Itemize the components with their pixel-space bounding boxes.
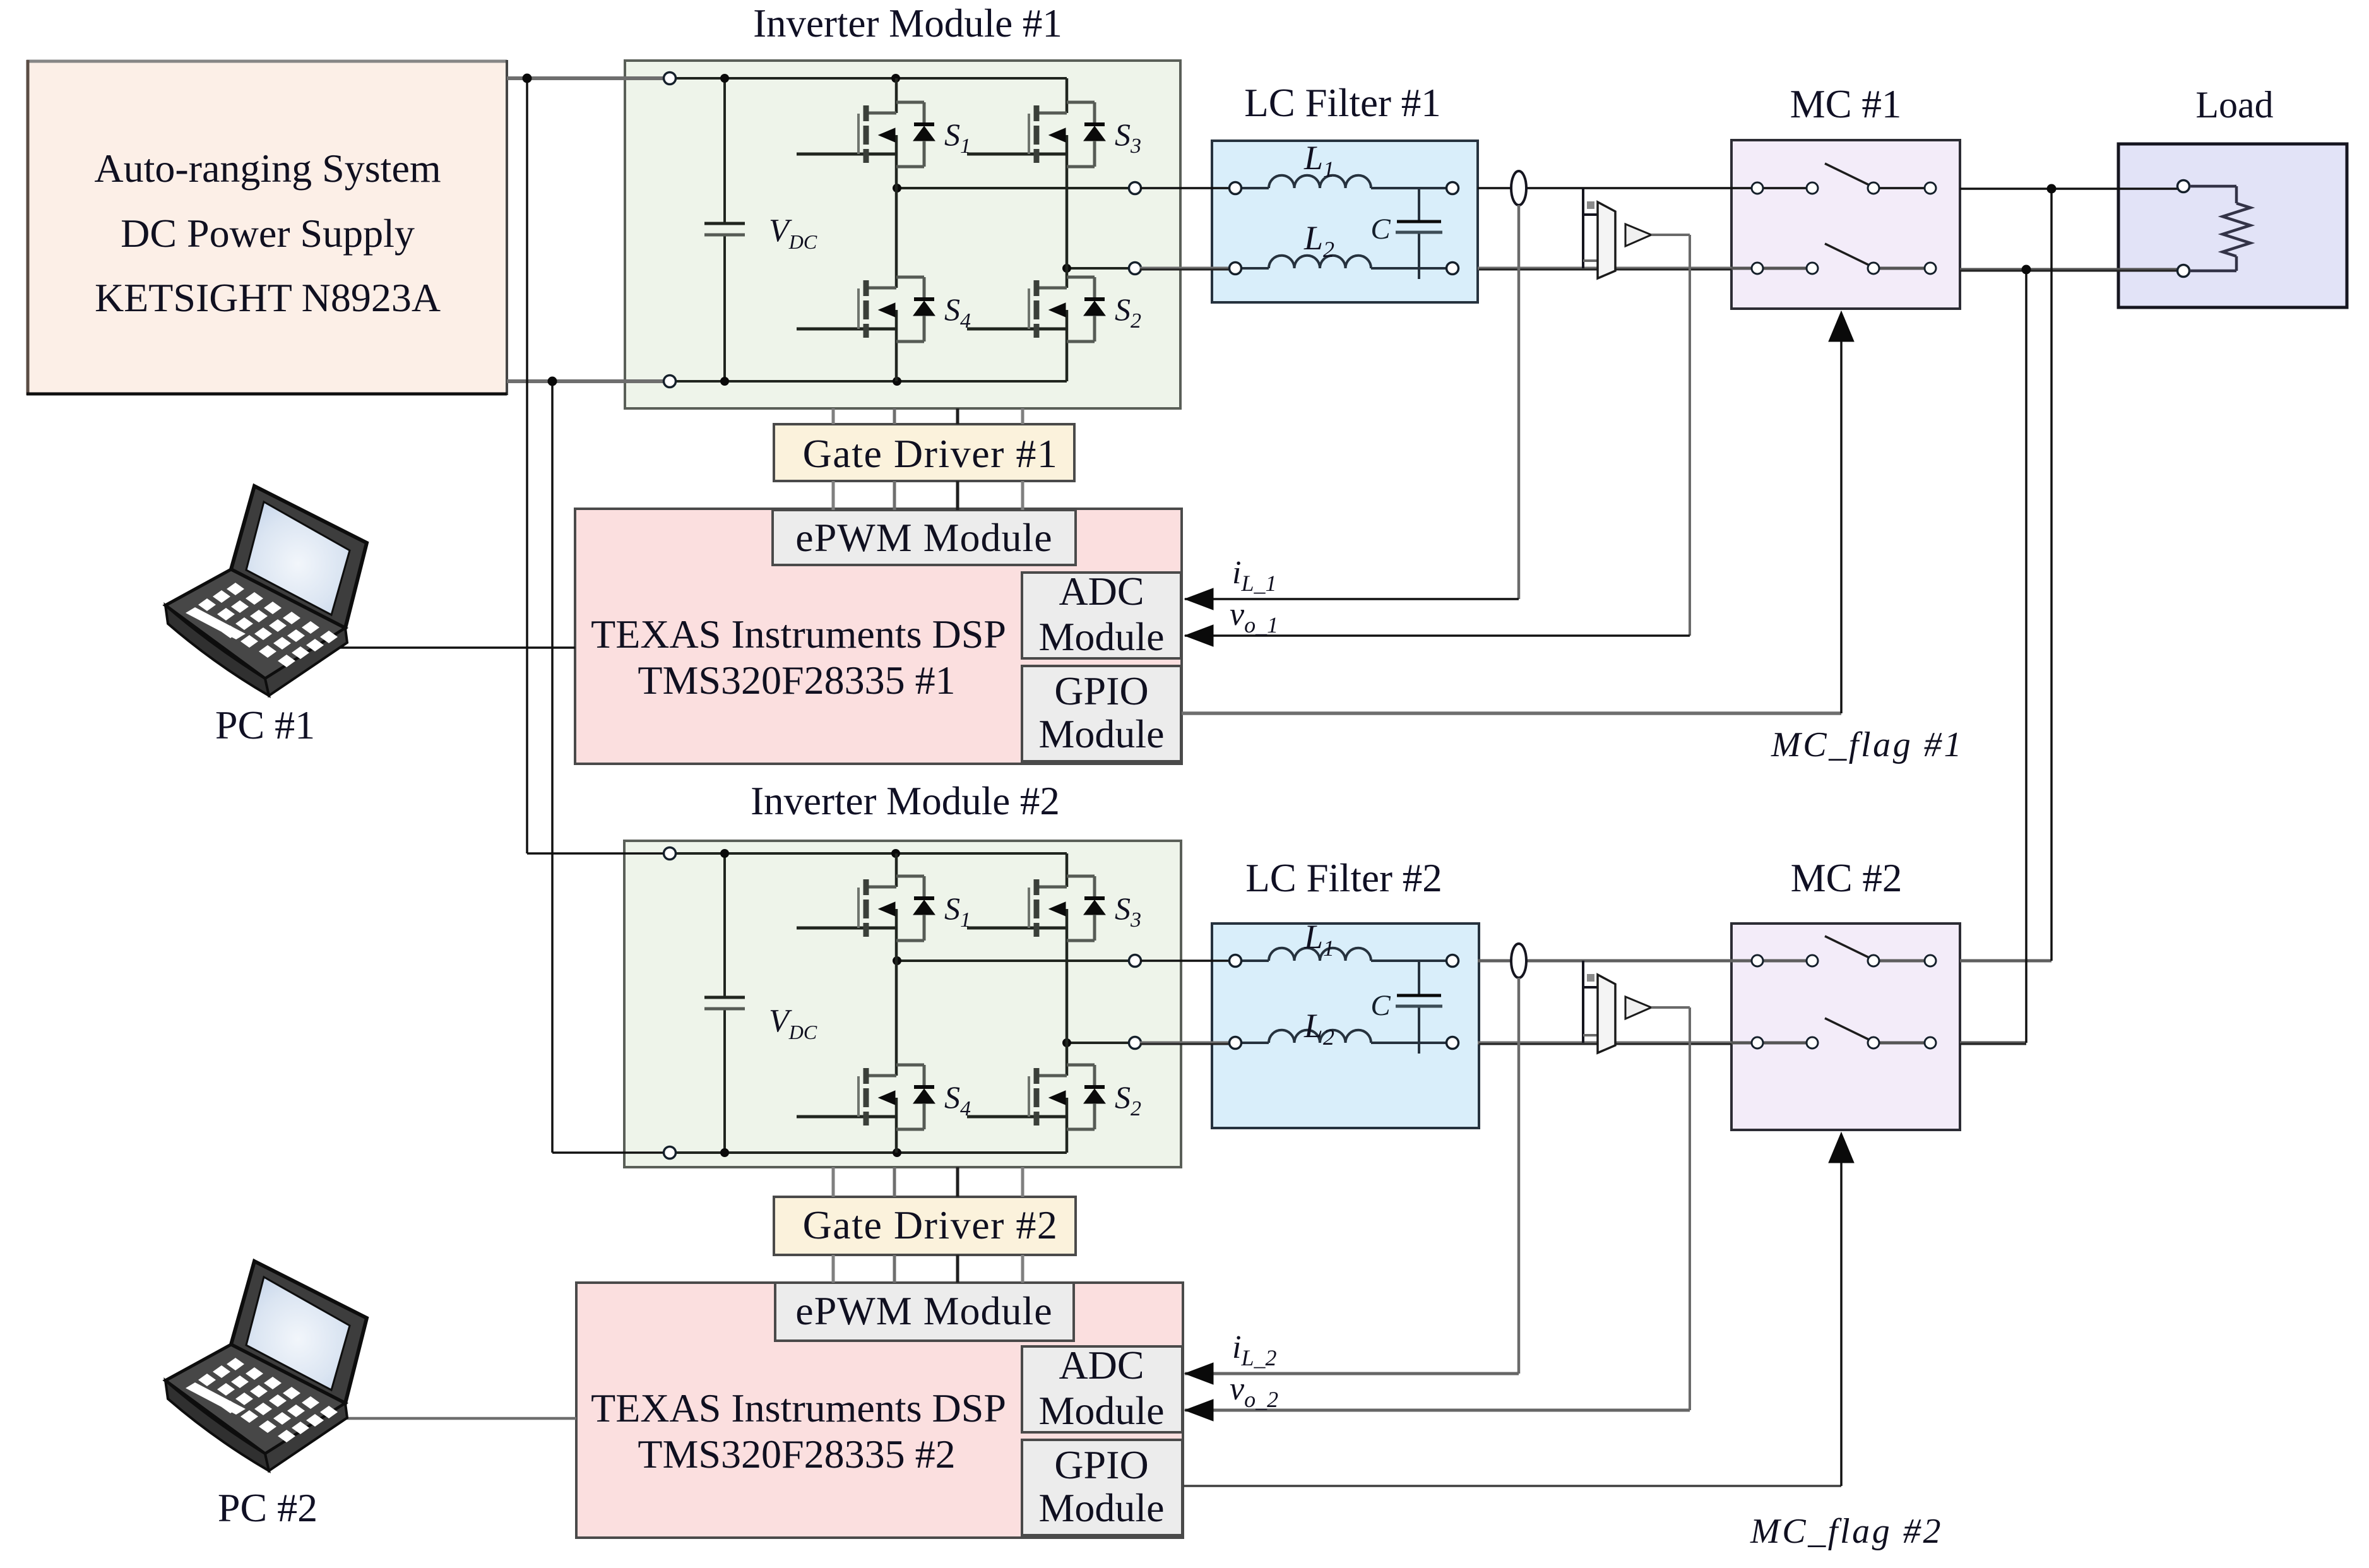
svg-text:MC_flag #2: MC_flag #2: [1750, 1512, 1943, 1551]
svg-text:TEXAS Instruments DSP: TEXAS Instruments DSP: [591, 612, 1006, 656]
svg-text:Load: Load: [2195, 84, 2273, 126]
svg-text:GPIO: GPIO: [1054, 668, 1148, 713]
svg-text:ePWM Module: ePWM Module: [795, 1288, 1052, 1333]
svg-text:LC Filter #1: LC Filter #1: [1244, 81, 1441, 125]
svg-text:Module: Module: [1038, 614, 1164, 659]
svg-text:Module: Module: [1038, 1485, 1164, 1530]
svg-text:PC #2: PC #2: [218, 1485, 318, 1530]
svg-text:MC #1: MC #1: [1790, 82, 1902, 126]
svg-text:KETSIGHT N8923A: KETSIGHT N8923A: [95, 275, 441, 320]
svg-text:DC Power Supply: DC Power Supply: [121, 211, 415, 256]
svg-text:Module: Module: [1038, 1388, 1164, 1433]
svg-text:TEXAS Instruments DSP: TEXAS Instruments DSP: [591, 1386, 1006, 1430]
svg-text:ADC: ADC: [1059, 1343, 1144, 1387]
svg-text:Gate Driver #2: Gate Driver #2: [803, 1203, 1059, 1247]
svg-text:Module: Module: [1038, 711, 1164, 756]
svg-text:C: C: [1370, 213, 1391, 246]
svg-text:Inverter Module #1: Inverter Module #1: [753, 1, 1062, 45]
svg-text:TMS320F28335 #2: TMS320F28335 #2: [638, 1432, 955, 1476]
svg-text:LC Filter #2: LC Filter #2: [1245, 856, 1442, 900]
svg-text:GPIO: GPIO: [1054, 1442, 1148, 1487]
svg-text:Gate Driver #1: Gate Driver #1: [803, 431, 1059, 476]
svg-text:MC_flag #1: MC_flag #1: [1771, 725, 1964, 764]
svg-text:MC #2: MC #2: [1791, 856, 1903, 900]
svg-text:TMS320F28335 #1: TMS320F28335 #1: [638, 658, 955, 703]
svg-text:ePWM Module: ePWM Module: [795, 515, 1052, 560]
svg-text:PC #1: PC #1: [215, 703, 315, 747]
svg-text:Inverter Module #2: Inverter Module #2: [751, 779, 1060, 823]
svg-text:Auto-ranging System: Auto-ranging System: [94, 146, 441, 191]
svg-text:C: C: [1370, 989, 1391, 1022]
svg-text:ADC: ADC: [1059, 569, 1144, 614]
